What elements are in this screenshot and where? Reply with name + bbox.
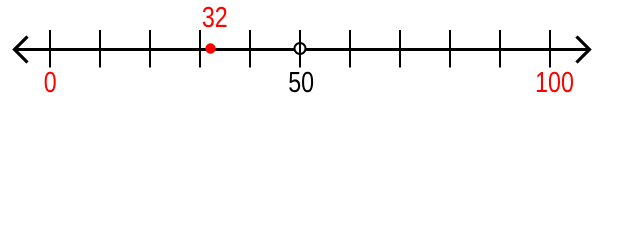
- tick 70: [399, 30, 401, 68]
- tick 90: [499, 30, 501, 68]
- tick 100: [549, 30, 551, 68]
- left arrowhead: [15, 37, 28, 63]
- tick 60: [349, 30, 351, 68]
- tick 50: [299, 30, 301, 68]
- tick 40: [249, 30, 251, 68]
- tick 20: [149, 30, 151, 68]
- tick 10: [99, 30, 101, 68]
- svg-text:50: 50: [288, 65, 314, 98]
- svg-text:100: 100: [535, 65, 574, 98]
- svg-text:0: 0: [44, 65, 57, 98]
- right arrowhead: [577, 37, 590, 63]
- number line shaft: [15, 48, 589, 51]
- tick 0: [49, 30, 51, 68]
- tick 30: [199, 30, 201, 68]
- red point at 32: [205, 43, 215, 53]
- svg-text:32: 32: [202, 0, 228, 33]
- tick 80: [449, 30, 451, 68]
- open circle at 50: [295, 43, 306, 54]
